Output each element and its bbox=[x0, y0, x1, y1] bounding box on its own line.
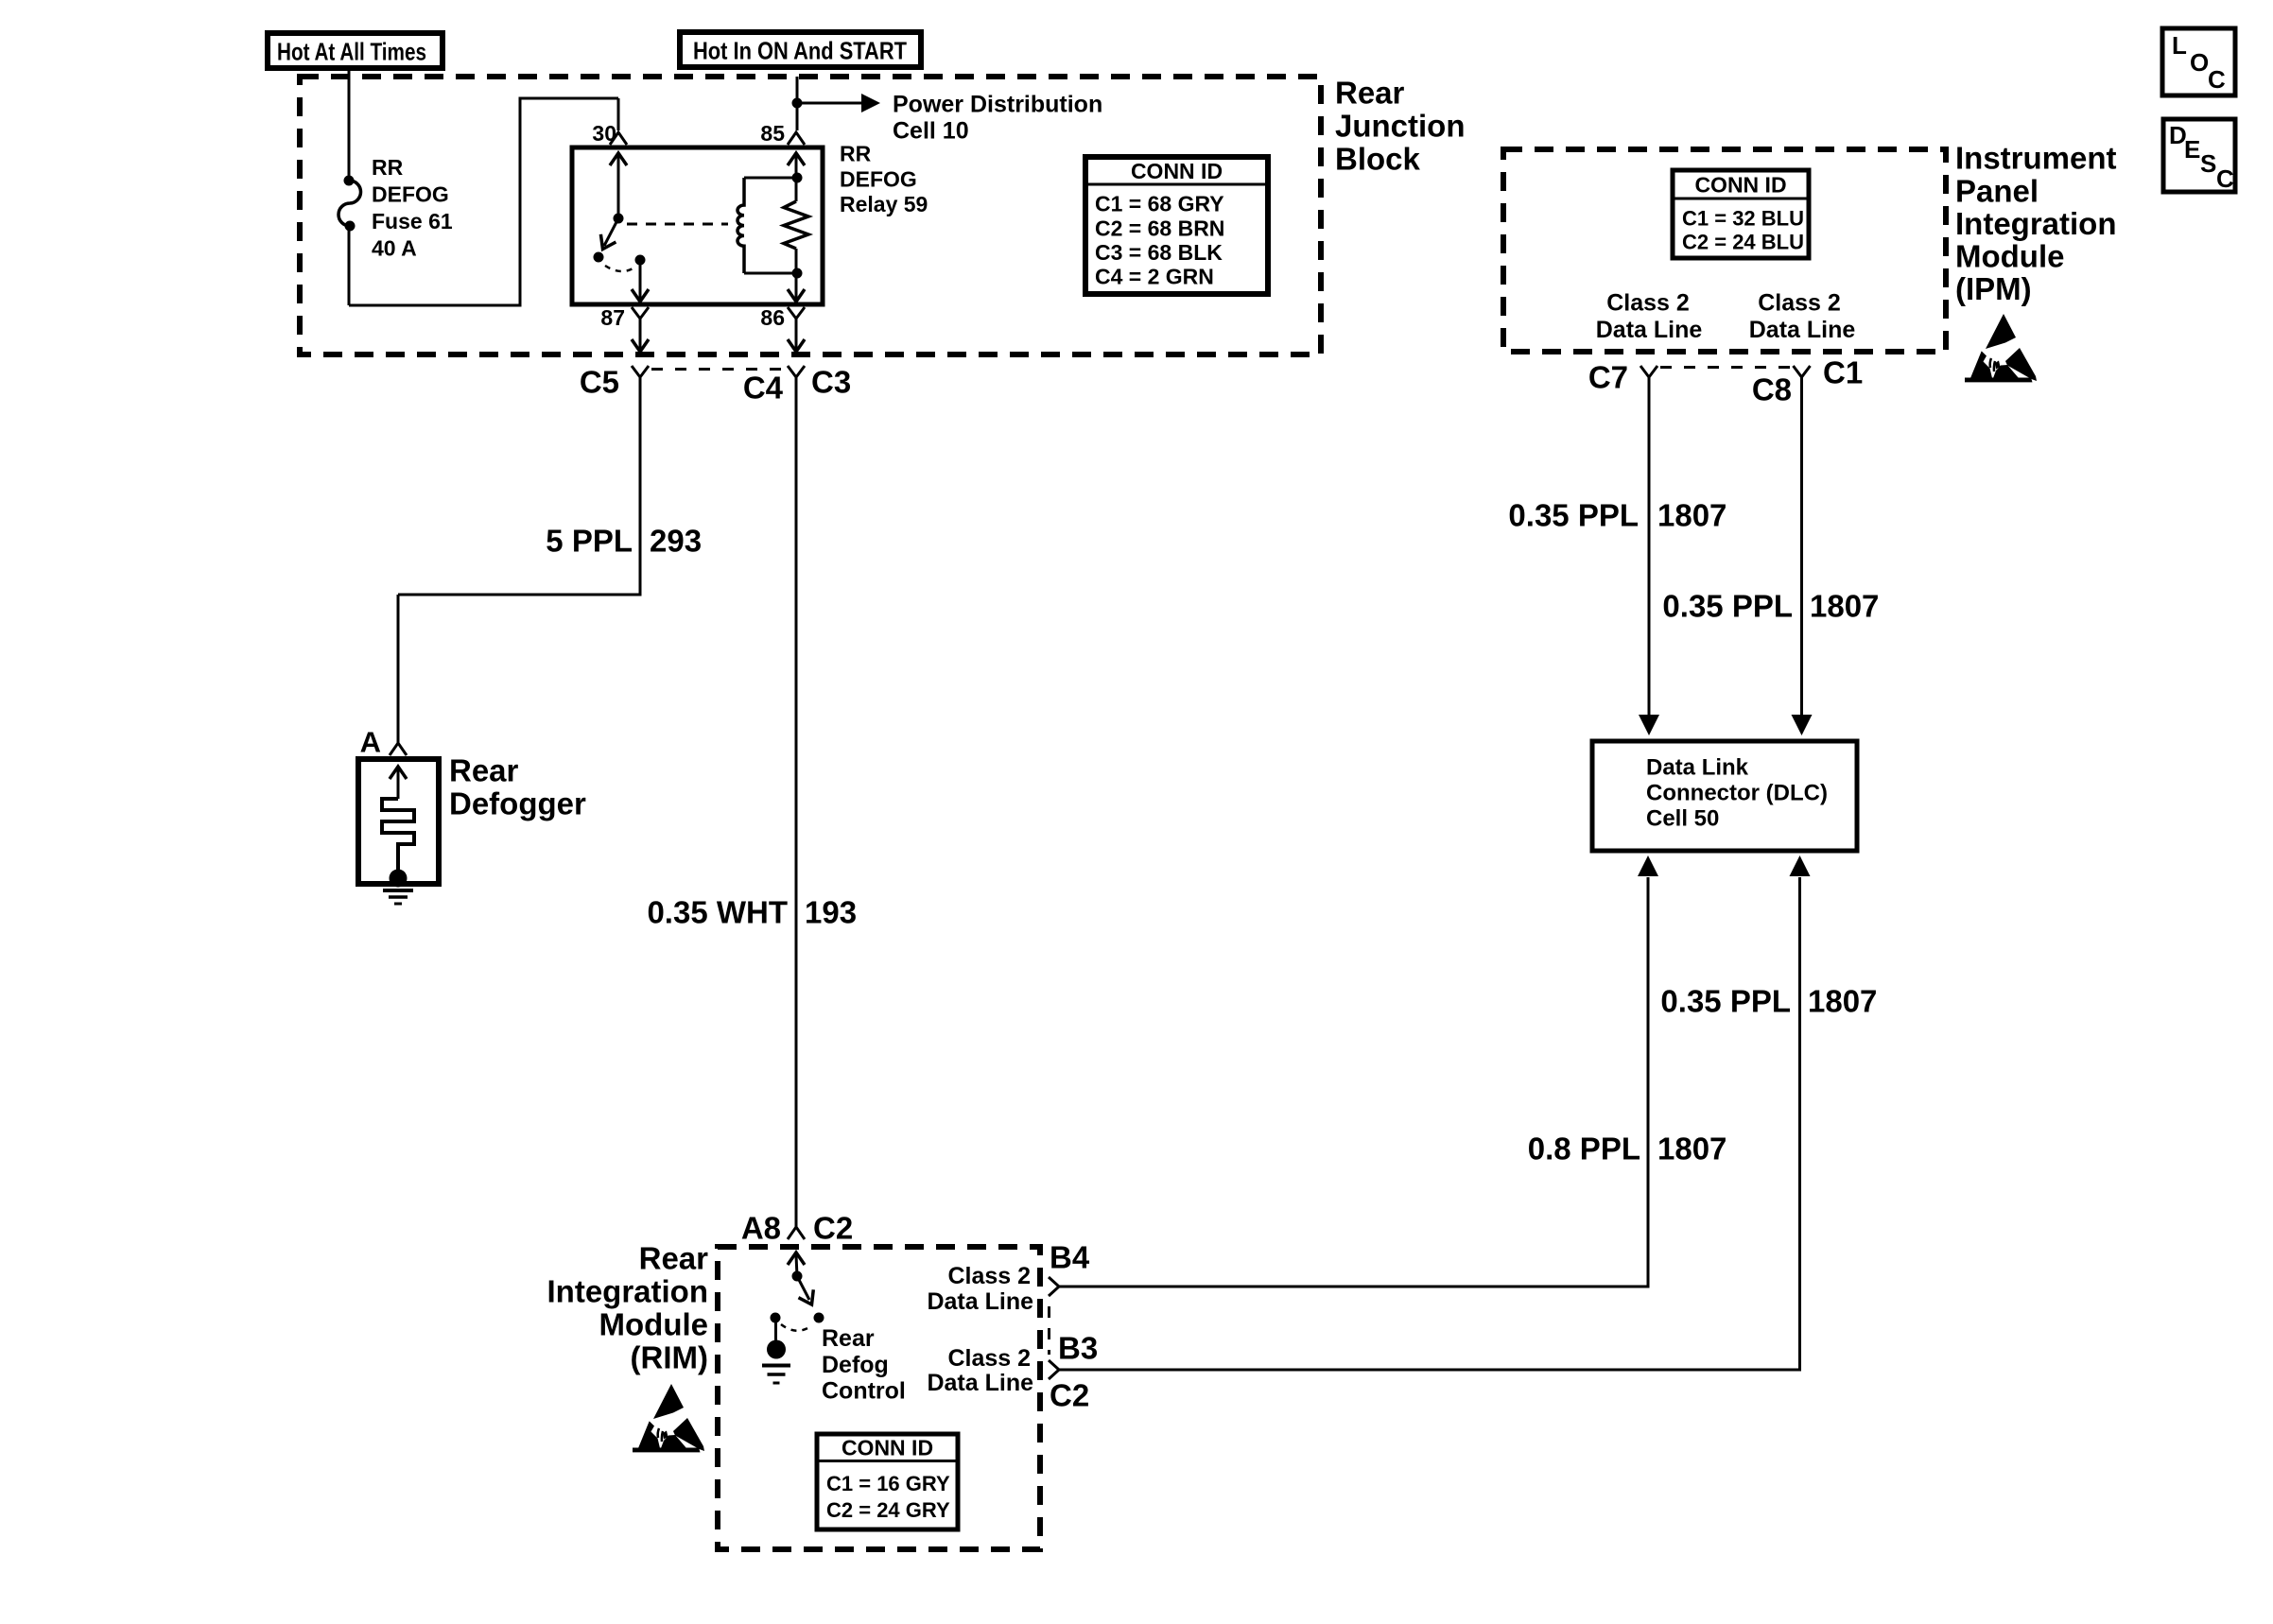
svg-text:Hot In ON And START: Hot In ON And START bbox=[693, 37, 907, 65]
relay suppression resistor R1 (zigzag) bbox=[784, 178, 808, 273]
svg-text:(RIM): (RIM) bbox=[631, 1340, 708, 1375]
svg-text:40 A: 40 A bbox=[372, 236, 417, 261]
relay coil bottom rail bbox=[744, 272, 797, 275]
defogger heating element (grid) bbox=[382, 799, 414, 871]
svg-text:0.35 PPL: 0.35 PPL bbox=[1662, 589, 1793, 624]
module name: Instrument Panel Integration Module (IPM) bbox=[1955, 141, 2117, 307]
module name: Rear Integration Module (RIM) bbox=[547, 1241, 709, 1375]
label: Class 2 Data Line (B3) bbox=[927, 1345, 1033, 1396]
pin 87 connector half (female) bbox=[632, 307, 649, 319]
arrow into DLC bottom (left) bbox=[1638, 855, 1658, 876]
wire C5 down bbox=[639, 377, 642, 595]
svg-text:Power Distribution: Power Distribution bbox=[893, 92, 1102, 118]
dashed connector link C5-C4 bbox=[651, 368, 786, 371]
svg-text:Defogger: Defogger bbox=[449, 786, 586, 821]
CONN ID table (Rear Junction Block) bbox=[1085, 157, 1268, 294]
svg-text:C1 = 32 BLU: C1 = 32 BLU bbox=[1682, 207, 1804, 231]
label: RR DEFOG Fuse 61 40 A bbox=[372, 155, 453, 261]
connector C8/C1 half (female) bbox=[1794, 366, 1811, 377]
connector label A8 bbox=[741, 1211, 781, 1246]
svg-text:C2: C2 bbox=[813, 1211, 853, 1246]
wire label: 0.35 PPL 1807 (C7) bbox=[1508, 498, 1726, 533]
wire down to defogger pin A bbox=[397, 595, 400, 743]
svg-text:1807: 1807 bbox=[1657, 498, 1726, 533]
connector label C7 bbox=[1588, 360, 1628, 395]
relay switch contact dot (87 side, open) bbox=[594, 252, 604, 263]
svg-text:Class 2: Class 2 bbox=[1606, 289, 1690, 316]
svg-text:86: 86 bbox=[760, 305, 785, 330]
ESD sensitivity symbol (RIM) bbox=[633, 1384, 704, 1452]
svg-text:C3: C3 bbox=[811, 365, 851, 400]
svg-text:Rear: Rear bbox=[1335, 76, 1405, 111]
RIM ground stem bbox=[774, 1318, 777, 1340]
arrow into DLC top (right) bbox=[1792, 715, 1813, 735]
svg-text:Data Line: Data Line bbox=[927, 1370, 1033, 1396]
pin 30 connector half (male) bbox=[610, 132, 627, 145]
svg-text:B4: B4 bbox=[1050, 1240, 1090, 1275]
svg-text:C1: C1 bbox=[1823, 355, 1863, 390]
svg-text:Module: Module bbox=[599, 1307, 708, 1342]
dashed connector link C7-C8 bbox=[1660, 366, 1791, 369]
pin label 87 bbox=[600, 305, 625, 330]
label: RR DEFOG Relay 59 bbox=[840, 142, 928, 217]
RIM switch blade (Rear Defog Control) bbox=[797, 1276, 813, 1304]
svg-text:1807: 1807 bbox=[1810, 589, 1879, 624]
pin label 30 bbox=[592, 121, 616, 146]
svg-text:293: 293 bbox=[650, 524, 702, 559]
connector C4/C3 half (female) bbox=[788, 366, 805, 377]
svg-text:C2 = 24 GRY: C2 = 24 GRY bbox=[826, 1498, 950, 1522]
svg-text:0.35 PPL: 0.35 PPL bbox=[1508, 498, 1639, 533]
svg-text:Integration: Integration bbox=[547, 1274, 709, 1309]
component box: Data Link Connector (DLC) Cell 50 bbox=[1592, 741, 1857, 851]
svg-text:Module: Module bbox=[1955, 239, 2064, 274]
wire Hot In ON And START down to pin 85 bbox=[796, 77, 799, 130]
wire label: 0.8 PPL 1807 bbox=[1528, 1132, 1727, 1166]
svg-text:L: L bbox=[2172, 31, 2187, 60]
junction dot on power wire bbox=[792, 98, 803, 109]
svg-text:Instrument: Instrument bbox=[1955, 141, 2117, 176]
relay pin 87 internal wire with arrow bbox=[632, 260, 649, 302]
connector label C4 bbox=[743, 371, 784, 406]
wire pin 87 to RJB border with arrow bbox=[632, 319, 649, 352]
svg-text:0.35 WHT: 0.35 WHT bbox=[647, 895, 788, 930]
relay coil top rail bbox=[744, 177, 797, 180]
svg-text:CONN ID: CONN ID bbox=[1694, 173, 1786, 198]
svg-text:Connector (DLC): Connector (DLC) bbox=[1646, 781, 1828, 806]
relay coil top junction dot bbox=[792, 173, 803, 183]
svg-text:E: E bbox=[2184, 135, 2200, 164]
ESD sensitivity symbol (IPM) bbox=[1965, 314, 2037, 382]
label: Rear Defog Control bbox=[822, 1325, 906, 1405]
relay coil bottom junction dot bbox=[792, 268, 803, 279]
svg-text:Data Line: Data Line bbox=[1749, 317, 1856, 343]
pin A8 connector half (male) bbox=[788, 1227, 805, 1239]
Rear Defogger case bbox=[358, 759, 439, 884]
connector label C3 bbox=[811, 365, 851, 400]
svg-text:CONN ID: CONN ID bbox=[1131, 159, 1223, 183]
power feed label box: Hot In ON And START bbox=[680, 32, 921, 67]
svg-text:C4: C4 bbox=[743, 371, 784, 406]
wire left to defogger bbox=[398, 594, 642, 596]
svg-text:Data Link: Data Link bbox=[1646, 755, 1749, 781]
svg-text:DEFOG: DEFOG bbox=[372, 182, 449, 207]
svg-text:C4 = 2 GRN: C4 = 2 GRN bbox=[1095, 265, 1214, 289]
wire pin 86 to RJB border with arrow bbox=[788, 319, 805, 352]
svg-text:DEFOG: DEFOG bbox=[840, 166, 917, 191]
svg-text:Rear: Rear bbox=[822, 1325, 875, 1352]
svg-text:Control: Control bbox=[822, 1377, 906, 1404]
wire C7 to DLC (0.35 PPL 1807) bbox=[1648, 377, 1651, 716]
wire vertical up to top run bbox=[519, 98, 522, 307]
module box: Rear Integration Module (dashed) bbox=[718, 1247, 1040, 1549]
svg-text:S: S bbox=[2200, 149, 2216, 178]
connector label C2 (RIM top) bbox=[813, 1211, 853, 1246]
wire B4 to DLC (0.8 PPL 1807) bbox=[1059, 877, 1648, 1288]
RIM switch pivot dot bbox=[792, 1271, 803, 1282]
wire C3 down to RIM (0.35 WHT 193) bbox=[795, 377, 798, 1227]
svg-text:Junction: Junction bbox=[1335, 109, 1466, 144]
svg-text:Relay 59: Relay 59 bbox=[840, 192, 928, 216]
svg-text:O: O bbox=[2190, 48, 2209, 77]
relay pin 86 internal wire with arrow bbox=[788, 273, 805, 302]
wire from Hot At All Times down to fuse bbox=[348, 68, 351, 181]
svg-text:Cell 10: Cell 10 bbox=[893, 118, 969, 145]
label: Class 2 Data Line (C8) bbox=[1749, 289, 1856, 343]
svg-text:C: C bbox=[2208, 65, 2226, 94]
svg-text:Cell 50: Cell 50 bbox=[1646, 806, 1719, 832]
defogger ground ball bbox=[390, 870, 408, 888]
svg-text:C7: C7 bbox=[1588, 360, 1628, 395]
ground symbol in RIM bbox=[762, 1366, 790, 1384]
dashed connector link B4-B3 bbox=[1048, 1306, 1050, 1355]
module name: Rear Junction Block bbox=[1335, 76, 1466, 177]
wire B3 to DLC (0.35 PPL 1807) bbox=[1059, 877, 1800, 1372]
pin label B3 bbox=[1058, 1331, 1098, 1366]
svg-text:1807: 1807 bbox=[1808, 984, 1877, 1019]
svg-text:A8: A8 bbox=[741, 1211, 781, 1246]
relay switch contact dot (87 side, closed path) bbox=[635, 255, 646, 266]
svg-text:C8: C8 bbox=[1752, 372, 1792, 407]
svg-text:Data Line: Data Line bbox=[927, 1288, 1033, 1315]
module box: Instrument Panel Integration Module (dashed) bbox=[1503, 149, 1946, 352]
svg-text:Class 2: Class 2 bbox=[1758, 289, 1841, 316]
label: Class 2 Data Line (C7) bbox=[1596, 289, 1703, 343]
svg-text:C2: C2 bbox=[1050, 1378, 1089, 1413]
relay pin 85 internal wire with arrow bbox=[788, 153, 805, 178]
svg-text:Panel: Panel bbox=[1955, 174, 2039, 209]
wire down to pin 30 connector bbox=[617, 98, 620, 130]
label: Class 2 Data Line (B4) bbox=[927, 1263, 1033, 1315]
relay switch pivot dot bbox=[614, 214, 624, 224]
connector C7 half (female) bbox=[1640, 366, 1657, 377]
svg-text:C3 = 68 BLK: C3 = 68 BLK bbox=[1095, 240, 1223, 265]
svg-text:C1 = 16 GRY: C1 = 16 GRY bbox=[826, 1472, 950, 1495]
svg-text:Block: Block bbox=[1335, 142, 1421, 177]
CONN ID table (RIM) bbox=[817, 1434, 958, 1529]
wire fuse bottom down bbox=[348, 226, 351, 305]
pin B3 connector half bbox=[1049, 1360, 1059, 1379]
RIM switch contact dot (right) bbox=[814, 1313, 824, 1323]
defogger internal arrow bbox=[390, 767, 407, 799]
wire to Power Distribution arrow bbox=[797, 102, 862, 105]
svg-text:C1 = 68 GRY: C1 = 68 GRY bbox=[1095, 192, 1224, 216]
relay K59 case (RR DEFOG Relay 59) bbox=[572, 147, 823, 304]
relay switch blade bbox=[600, 218, 618, 250]
relay switch throw arc (dashed) bbox=[605, 266, 634, 271]
svg-text:Hot At All Times: Hot At All Times bbox=[277, 38, 426, 66]
connector label C2 (RIM right) bbox=[1050, 1378, 1089, 1413]
pin A connector half (male) bbox=[390, 743, 407, 755]
CONN ID table (IPM) bbox=[1673, 170, 1809, 258]
wire top horizontal to pin 30 bbox=[519, 97, 619, 100]
DESC reference box bbox=[2163, 119, 2235, 193]
svg-text:RR: RR bbox=[840, 142, 872, 166]
connector label C1 (IPM) bbox=[1823, 355, 1863, 390]
svg-text:Class 2: Class 2 bbox=[947, 1263, 1031, 1289]
wire label: 0.35 PPL 1807 (lower) bbox=[1660, 984, 1877, 1019]
wire label: 0.35 WHT 193 bbox=[647, 895, 857, 930]
svg-text:B3: B3 bbox=[1058, 1331, 1098, 1366]
svg-text:1807: 1807 bbox=[1657, 1132, 1726, 1166]
svg-text:A: A bbox=[360, 726, 381, 759]
svg-text:C2 = 24 BLU: C2 = 24 BLU bbox=[1682, 231, 1804, 254]
wire label: 5 PPL 293 bbox=[546, 524, 702, 559]
connector label A bbox=[360, 726, 381, 759]
svg-text:Integration: Integration bbox=[1955, 206, 2117, 241]
svg-text:Data Line: Data Line bbox=[1596, 317, 1703, 343]
label: Power Distribution Cell 10 bbox=[893, 92, 1102, 145]
arrow to Power Distribution Cell 10 bbox=[861, 94, 880, 112]
relay coil L1 bbox=[737, 178, 744, 273]
svg-text:87: 87 bbox=[600, 305, 625, 330]
pin B4 connector half bbox=[1049, 1277, 1059, 1296]
svg-text:Class 2: Class 2 bbox=[947, 1345, 1031, 1372]
RIM switch throw arc (dashed) bbox=[781, 1324, 812, 1331]
RIM internal wire from A8 with arrow bbox=[788, 1253, 805, 1276]
power feed label box: Hot At All Times bbox=[268, 33, 442, 68]
svg-text:0.8 PPL: 0.8 PPL bbox=[1528, 1132, 1640, 1166]
RIM switch grounded contact dot bbox=[771, 1313, 781, 1323]
wire bottom horizontal to relay feed bbox=[349, 304, 520, 307]
RIM ground ball bbox=[767, 1340, 786, 1359]
svg-text:Fuse 61: Fuse 61 bbox=[372, 209, 453, 233]
module box: Rear Junction Block (dashed) bbox=[300, 77, 1321, 354]
pin label 86 bbox=[760, 305, 785, 330]
svg-text:RR: RR bbox=[372, 155, 404, 180]
pin label B4 bbox=[1050, 1240, 1090, 1275]
wire C8 to DLC (0.35 PPL 1807) bbox=[1800, 377, 1803, 716]
connector label C8 bbox=[1752, 372, 1792, 407]
connector label C5 bbox=[580, 365, 619, 400]
fuse F61 (RR DEFOG Fuse 61 40 A) symbol bbox=[338, 176, 361, 232]
svg-text:C5: C5 bbox=[580, 365, 619, 400]
label: Rear Defogger bbox=[449, 753, 586, 821]
pin 86 connector half (female) bbox=[788, 307, 805, 319]
pin 85 connector half (male) bbox=[788, 132, 805, 145]
svg-text:Rear: Rear bbox=[639, 1241, 709, 1276]
wire label: 0.35 PPL 1807 (C8) bbox=[1662, 589, 1879, 624]
svg-text:C: C bbox=[2216, 164, 2234, 193]
LOC reference box bbox=[2162, 28, 2235, 95]
svg-text:0.35 PPL: 0.35 PPL bbox=[1660, 984, 1791, 1019]
svg-text:(IPM): (IPM) bbox=[1955, 271, 2032, 306]
svg-text:5 PPL: 5 PPL bbox=[546, 524, 633, 559]
pin label 85 bbox=[760, 121, 785, 146]
svg-text:C2 = 68 BRN: C2 = 68 BRN bbox=[1095, 216, 1224, 241]
svg-text:Defog: Defog bbox=[822, 1352, 889, 1378]
arrow into DLC bottom (right) bbox=[1790, 855, 1811, 876]
relay pin 30 internal wire with arrow bbox=[610, 153, 627, 218]
connector C5 half (female) bbox=[632, 366, 649, 377]
relay control dashed link to coil bbox=[627, 223, 728, 226]
svg-text:85: 85 bbox=[760, 121, 785, 146]
svg-text:CONN ID: CONN ID bbox=[842, 1436, 933, 1460]
arrow into DLC top (left) bbox=[1639, 715, 1659, 735]
svg-text:193: 193 bbox=[805, 895, 857, 930]
ground symbol below defogger bbox=[383, 890, 413, 904]
svg-text:Rear: Rear bbox=[449, 753, 519, 788]
